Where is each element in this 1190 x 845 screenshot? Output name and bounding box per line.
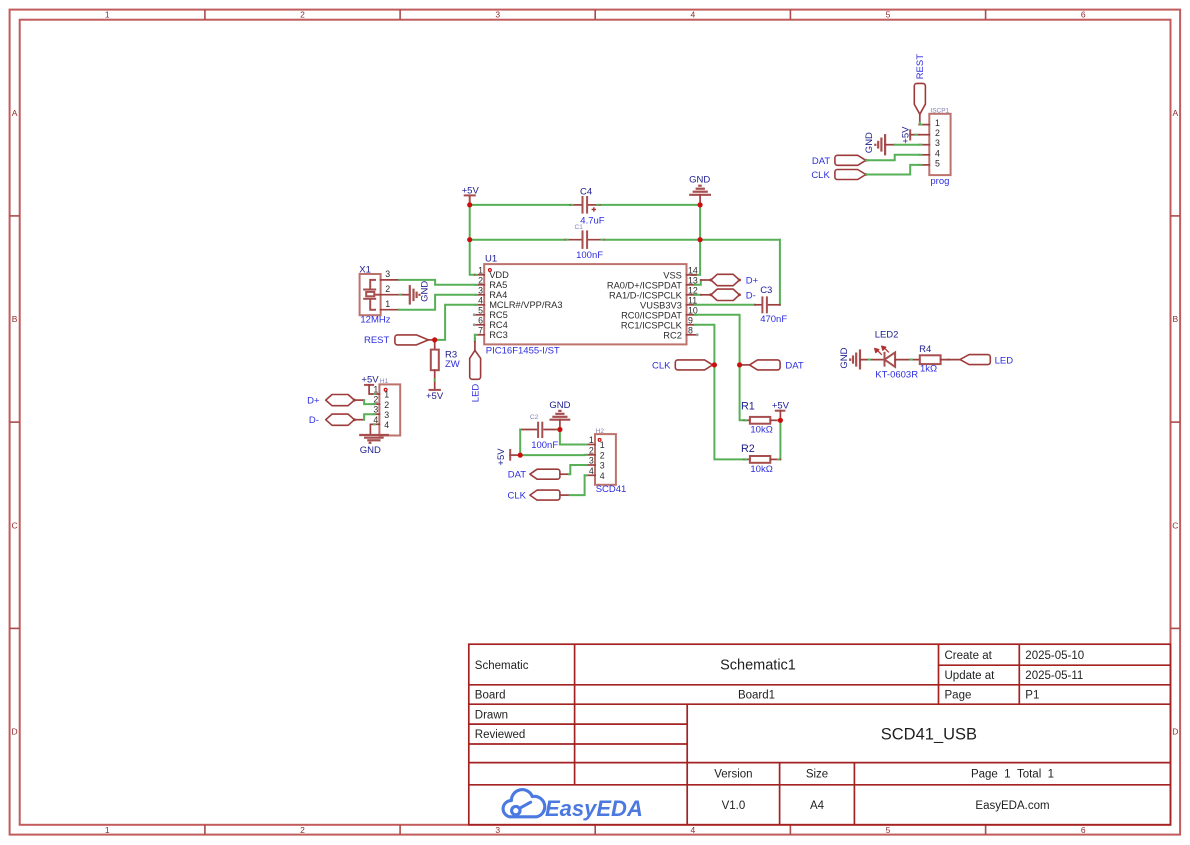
svg-text:RC4: RC4	[489, 320, 508, 330]
svg-text:GND: GND	[839, 347, 850, 368]
net flag DAT (H2)	[508, 469, 569, 481]
svg-text:X1: X1	[359, 264, 371, 275]
svg-text:GND: GND	[689, 175, 710, 186]
svg-text:C: C	[12, 520, 18, 530]
header ISCP1 box	[929, 114, 950, 175]
junction node +5V/C4	[467, 202, 472, 207]
ground GND (prog, rotated left)	[864, 132, 895, 155]
ground GND (H2, inverted)	[549, 400, 570, 428]
svg-text:1: 1	[589, 435, 594, 445]
capacitor C3	[755, 285, 787, 325]
svg-text:2: 2	[935, 128, 940, 138]
svg-text:U1: U1	[485, 253, 497, 264]
net flag REST	[364, 335, 435, 346]
svg-text:D+: D+	[746, 276, 759, 287]
svg-text:+5V: +5V	[426, 391, 444, 402]
header H1 pin1 indicator	[384, 388, 387, 391]
svg-text:H2: H2	[596, 428, 605, 435]
svg-text:1: 1	[478, 265, 483, 275]
ISCP1 pin 3	[919, 144, 929, 146]
wire H1 D- to pin3	[364, 414, 373, 420]
junction node C2/GND	[557, 427, 562, 432]
svg-text:2: 2	[385, 284, 390, 294]
svg-text:REST: REST	[915, 54, 926, 80]
H1 pin 3	[373, 413, 379, 415]
ground GND (H1)	[359, 424, 389, 456]
EasyEDA logo	[503, 790, 545, 817]
svg-text:100nF: 100nF	[576, 250, 603, 261]
pin 2 RA5	[475, 284, 484, 286]
svg-text:A: A	[1172, 108, 1178, 118]
svg-text:2: 2	[300, 10, 305, 20]
svg-text:1: 1	[384, 390, 389, 400]
svg-text:DAT: DAT	[785, 361, 803, 372]
wire H2 CLK to pin4	[570, 475, 585, 495]
wire C1 row left segment	[470, 239, 566, 241]
pin 4 MCLR	[475, 304, 484, 306]
svg-text:D+: D+	[307, 396, 320, 407]
svg-text:+5V: +5V	[496, 448, 507, 466]
svg-text:H1: H1	[380, 378, 389, 385]
svg-text:P1: P1	[1025, 690, 1039, 702]
svg-text:3: 3	[495, 10, 500, 20]
crystal X1 box	[360, 274, 381, 315]
junction node DAT	[737, 362, 742, 367]
pin 3 RA4	[475, 294, 484, 296]
svg-text:3: 3	[589, 456, 594, 466]
junction node +5V/C2 branch	[518, 453, 523, 458]
svg-text:2: 2	[478, 275, 483, 285]
wire prog DAT to pin4	[866, 155, 919, 161]
svg-text:12MHz: 12MHz	[360, 315, 390, 326]
unconnected marker pin5	[473, 313, 476, 316]
border column ticks bottom	[205, 825, 986, 835]
net flag LED (below U1)	[470, 341, 482, 402]
H2 pin 1	[585, 444, 595, 446]
header H2 pin1 indicator	[598, 439, 601, 442]
wire +5V node up to C2	[519, 430, 521, 456]
U1 right pin names	[607, 270, 683, 340]
net port D+ (H1)	[307, 395, 364, 407]
svg-text:3: 3	[385, 269, 390, 279]
ISCP1 pin 4	[919, 154, 929, 156]
wire U1 RC1 to CLK junction	[695, 325, 715, 365]
U1 left pin names	[489, 270, 562, 340]
border row ticks right	[1171, 216, 1181, 629]
svg-text:4: 4	[691, 825, 696, 835]
svg-text:ZW: ZW	[445, 359, 460, 370]
svg-text:C3: C3	[760, 285, 772, 296]
svg-text:3: 3	[495, 825, 500, 835]
svg-text:Update at: Update at	[945, 670, 996, 682]
svg-text:DAT: DAT	[812, 156, 830, 167]
header H1 box	[379, 384, 400, 435]
svg-text:prog: prog	[930, 176, 949, 187]
IC U1 pin1 indicator	[489, 269, 492, 272]
border row labels right	[1172, 108, 1178, 737]
pin 12 RA1	[687, 294, 696, 296]
svg-text:EasyEDA.com: EasyEDA.com	[975, 800, 1049, 812]
svg-text:SCD41_USB: SCD41_USB	[881, 725, 977, 743]
resistor R4	[919, 344, 960, 375]
svg-text:14: 14	[688, 265, 698, 275]
svg-text:1: 1	[385, 299, 390, 309]
svg-text:3: 3	[600, 461, 605, 471]
resistor R3	[431, 340, 460, 390]
svg-text:1: 1	[105, 10, 110, 20]
resistor R1	[741, 401, 780, 436]
border column labels bottom	[105, 825, 1086, 835]
H1 inside pin numbers	[384, 390, 389, 430]
wire R1 node down to R2 right	[779, 420, 781, 459]
wire stubs at component pin ends	[373, 121, 922, 475]
svg-text:Page 1 Total 1: Page 1 Total 1	[971, 769, 1054, 781]
border column ticks top	[205, 10, 986, 20]
ISCP1 pin 2	[919, 134, 929, 136]
junction node GND/top rail	[698, 202, 703, 207]
wire H2 DAT to pin3	[569, 465, 585, 474]
ISCP1 pin 1	[919, 124, 929, 126]
net port D- (U1)	[695, 289, 756, 301]
svg-text:R2: R2	[741, 443, 755, 455]
svg-text:CLK: CLK	[652, 360, 671, 371]
svg-text:LED: LED	[470, 384, 481, 403]
pin 9 RC1	[687, 324, 696, 326]
svg-text:DAT: DAT	[508, 470, 526, 481]
H2 pin 3	[585, 464, 595, 466]
svg-text:RA4: RA4	[489, 290, 507, 300]
svg-text:Schematic1: Schematic1	[720, 658, 796, 674]
crystal X1 internals	[363, 280, 381, 310]
svg-text:6: 6	[478, 315, 483, 325]
svg-text:RC3: RC3	[489, 330, 508, 340]
svg-text:R1: R1	[741, 401, 755, 413]
svg-text:RA1/D-/ICSPCLK: RA1/D-/ICSPCLK	[609, 290, 683, 300]
svg-text:5: 5	[886, 10, 891, 20]
svg-text:D: D	[1172, 727, 1178, 737]
wire C1 row extension to C3 branch	[700, 239, 780, 241]
svg-text:3: 3	[935, 138, 940, 148]
svg-text:Board: Board	[475, 690, 506, 702]
wire +5V vertical drop to C1 and U1 pin1	[470, 205, 475, 275]
net flag REST (prog, vertical)	[914, 54, 926, 125]
wire C1 row right segment	[604, 239, 700, 241]
wire CLK junction down to R2	[714, 365, 744, 460]
junction node REST/R3	[432, 337, 437, 342]
svg-text:5: 5	[478, 305, 483, 315]
wire REST to U1 MCLR	[438, 305, 475, 340]
svg-text:6: 6	[1081, 825, 1086, 835]
pin 14 VSS	[687, 274, 696, 276]
unconnected marker pin8	[696, 333, 699, 336]
svg-text:B: B	[12, 314, 18, 324]
svg-text:C: C	[1172, 520, 1178, 530]
svg-text:4: 4	[600, 471, 605, 481]
svg-text:B: B	[1172, 314, 1178, 324]
svg-text:C1: C1	[575, 224, 584, 231]
svg-text:ISCP1: ISCP1	[930, 107, 949, 114]
svg-text:4: 4	[935, 148, 940, 158]
capacitor C2	[520, 414, 560, 451]
svg-text:PIC16F1455-I/ST: PIC16F1455-I/ST	[486, 346, 560, 357]
H2 pin 4	[585, 474, 595, 476]
H2 pin 2	[585, 454, 595, 456]
svg-text:LED2: LED2	[875, 330, 899, 341]
svg-text:2: 2	[384, 400, 389, 410]
net flag CLK (mid)	[652, 360, 714, 371]
junction node CLK	[712, 362, 717, 367]
wire X1 pin3 to U1 RA5	[399, 280, 475, 285]
svg-text:100nF: 100nF	[531, 440, 558, 451]
border row labels left	[12, 108, 18, 737]
X1 pin 3	[381, 279, 400, 281]
H2 inside pin numbers	[600, 440, 605, 481]
net flag DAT (prog)	[812, 155, 867, 167]
svg-text:6: 6	[1081, 10, 1086, 20]
svg-text:5: 5	[935, 158, 940, 168]
svg-text:CLK: CLK	[811, 170, 830, 181]
svg-text:V1.0: V1.0	[722, 800, 746, 812]
wire prog CLK to pin5	[866, 165, 919, 175]
wire top rail right of C4	[600, 204, 700, 206]
H1 outside pin numbers	[373, 385, 378, 425]
svg-text:Size: Size	[806, 769, 828, 781]
power flag +5V (below R3, inverted)	[426, 390, 444, 402]
svg-text:2: 2	[589, 445, 594, 455]
capacitor C4	[570, 186, 604, 226]
ISCP1 inside pin numbers	[935, 118, 940, 168]
svg-text:1kΩ: 1kΩ	[920, 364, 937, 375]
svg-text:REST: REST	[364, 335, 390, 346]
wire U1 RC0 to DAT junction	[695, 315, 740, 365]
wire C3 vertical branch	[779, 240, 781, 305]
svg-text:2: 2	[600, 451, 605, 461]
net port D- (H1)	[309, 414, 364, 426]
net flag LED (right)	[960, 355, 1013, 367]
junction node R1/+5V	[778, 418, 783, 423]
pin 13 RA0	[687, 284, 696, 286]
svg-text:D: D	[12, 727, 18, 737]
wire H1 D+ to pin2	[364, 400, 373, 404]
wire U1 VUSB3V3 to C3	[695, 304, 755, 306]
svg-text:C2: C2	[530, 414, 539, 421]
svg-text:Reviewed: Reviewed	[475, 729, 526, 741]
svg-text:Version: Version	[714, 769, 752, 781]
net port D+ (U1)	[695, 274, 759, 286]
H1 pin 1	[373, 393, 379, 395]
svg-text:9: 9	[688, 315, 693, 325]
pin 7 RC3	[475, 334, 484, 336]
svg-text:D-: D-	[746, 291, 756, 302]
resistor R2	[741, 443, 780, 475]
svg-text:C4: C4	[580, 186, 592, 197]
unconnected marker pin6	[473, 323, 476, 326]
wire DAT junction down to R1	[740, 365, 745, 420]
LED LED2	[868, 330, 950, 381]
pin 8 RC2	[687, 334, 696, 336]
svg-text:MCLR#/VPP/RA3: MCLR#/VPP/RA3	[489, 300, 562, 310]
svg-text:1: 1	[105, 825, 110, 835]
svg-text:Schematic: Schematic	[475, 660, 529, 672]
pin 5 RC5	[475, 314, 484, 316]
junction node +5V/C1	[467, 237, 472, 242]
H2 outside pin numbers	[589, 435, 594, 476]
power flag +5V (H2, rotated)	[496, 448, 519, 466]
svg-text:RC5: RC5	[489, 310, 508, 320]
net flag CLK (H2)	[508, 490, 570, 501]
svg-text:2025-05-11: 2025-05-11	[1025, 670, 1083, 682]
U1 left pin numbers	[478, 265, 483, 335]
wire GND to prog pin3	[895, 144, 920, 146]
ground GND (X1, rotated right)	[399, 281, 431, 305]
title block grid	[469, 644, 1171, 825]
svg-text:2025-05-10: 2025-05-10	[1025, 650, 1084, 662]
svg-text:RC2: RC2	[663, 330, 682, 340]
border row ticks left	[10, 216, 20, 629]
svg-text:470nF: 470nF	[760, 314, 787, 325]
svg-text:GND: GND	[360, 445, 381, 456]
header H2 box	[595, 434, 616, 485]
svg-text:7: 7	[478, 325, 483, 335]
op IC U1 box	[484, 264, 686, 344]
power flag +5V (prog, rotated)	[901, 126, 920, 144]
svg-text:RA5: RA5	[489, 280, 507, 290]
svg-text:GND: GND	[864, 132, 875, 153]
svg-text:RC0/ICSPDAT: RC0/ICSPDAT	[621, 310, 682, 320]
power flag +5V (R1)	[772, 401, 790, 419]
capacitor C1	[565, 224, 604, 261]
svg-text:Drawn: Drawn	[475, 709, 508, 721]
net flag CLK (prog)	[811, 170, 867, 182]
svg-text:5: 5	[886, 825, 891, 835]
svg-text:VDD: VDD	[489, 270, 509, 280]
svg-text:A4: A4	[810, 800, 825, 812]
svg-text:1: 1	[935, 118, 940, 128]
wire GND drop to VSS pin14	[692, 205, 700, 275]
svg-text:2: 2	[300, 825, 305, 835]
svg-text:3: 3	[478, 285, 483, 295]
title block texts	[475, 650, 1084, 812]
svg-text:CLK: CLK	[508, 491, 527, 502]
ISCP1 pin 5	[919, 164, 929, 166]
border column labels top	[105, 10, 1086, 20]
net flag DAT (mid)	[740, 360, 804, 372]
svg-text:D-: D-	[309, 415, 319, 426]
H1 pin 4	[373, 423, 379, 425]
wire X1 pin1 to U1 RA4	[399, 295, 475, 310]
X1 pin 1	[381, 309, 400, 311]
pin 10 RC0	[687, 314, 696, 316]
wire U1 RC3 to LED flag	[474, 335, 476, 342]
wire +5V rail top left segment	[470, 204, 571, 206]
svg-text:4: 4	[589, 466, 594, 476]
pin 11 VUSB3V3	[687, 304, 696, 306]
svg-text:A: A	[12, 108, 18, 118]
svg-text:4.7uF: 4.7uF	[580, 216, 604, 227]
ground GND (top, inverted)	[689, 175, 711, 204]
svg-text:RC1/ICSPCLK: RC1/ICSPCLK	[621, 320, 683, 330]
wire GND node to H2 pin1	[560, 430, 585, 445]
U1 right pin numbers	[688, 265, 698, 335]
power flag +5V (top)	[462, 186, 480, 204]
svg-text:VUSB3V3: VUSB3V3	[640, 300, 682, 310]
svg-text:8: 8	[688, 325, 693, 335]
svg-text:10kΩ: 10kΩ	[750, 425, 772, 436]
svg-text:Board1: Board1	[738, 690, 775, 702]
svg-text:VSS: VSS	[663, 270, 682, 280]
svg-text:LED: LED	[995, 355, 1014, 366]
svg-text:10kΩ: 10kΩ	[750, 464, 772, 475]
wire +5V node to H2 pin2	[520, 454, 584, 456]
svg-text:4: 4	[691, 10, 696, 20]
ground GND (LED2, rotated left)	[839, 347, 885, 369]
svg-text:4: 4	[478, 295, 483, 305]
svg-text:GND: GND	[549, 400, 570, 411]
svg-text:EasyEDA: EasyEDA	[545, 796, 643, 821]
svg-text:GND: GND	[420, 281, 431, 302]
svg-text:3: 3	[384, 410, 389, 420]
svg-text:1: 1	[600, 440, 605, 450]
svg-text:R4: R4	[919, 344, 931, 355]
svg-text:SCD41: SCD41	[596, 484, 627, 495]
H1 pin 2	[373, 403, 379, 405]
svg-text:KT-0603R: KT-0603R	[875, 370, 918, 381]
power flag +5V (H1)	[361, 375, 379, 394]
svg-text:Page: Page	[945, 690, 972, 702]
X1 pin 2	[381, 294, 403, 296]
pin 1 VDD	[475, 274, 484, 276]
X1 pin numbers	[385, 269, 390, 309]
pin 6 RC4	[475, 324, 484, 326]
svg-text:RA0/D+/ICSPDAT: RA0/D+/ICSPDAT	[607, 280, 682, 290]
svg-text:Create at: Create at	[945, 650, 993, 662]
junction node C1 row / VSS drop	[698, 237, 703, 242]
svg-text:4: 4	[384, 420, 389, 430]
